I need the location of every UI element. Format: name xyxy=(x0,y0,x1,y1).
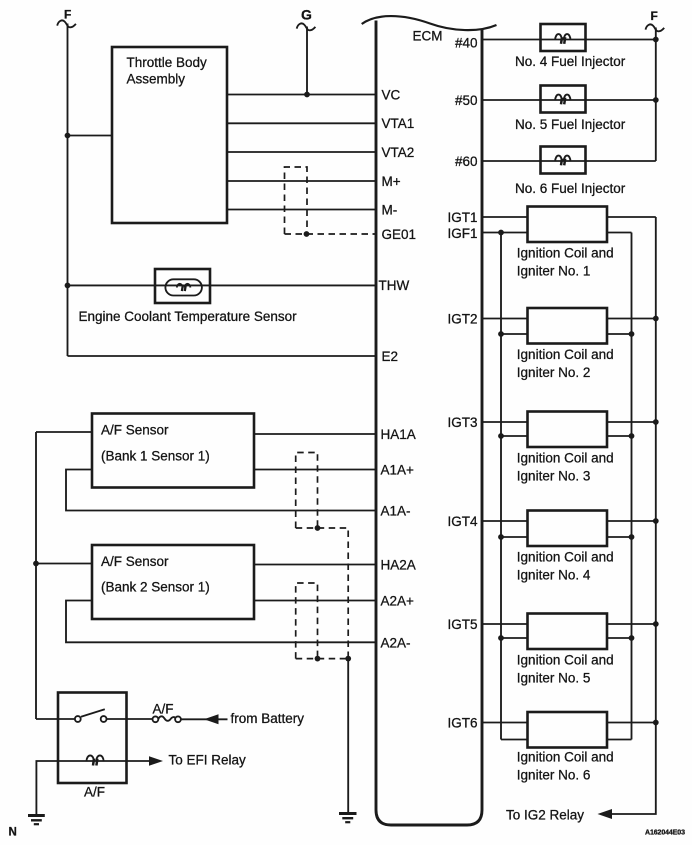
svg-text:Igniter No. 2: Igniter No. 2 xyxy=(517,365,591,380)
ignition coil no4 box xyxy=(528,511,608,547)
node junction drain to ground wire xyxy=(345,656,351,662)
arrow to EFI relay (points right) xyxy=(149,756,163,766)
svg-text:Ignition Coil and: Ignition Coil and xyxy=(517,750,614,765)
svg-text:A1A+: A1A+ xyxy=(381,462,415,477)
svg-text:No. 4 Fuel Injector: No. 4 Fuel Injector xyxy=(515,54,626,69)
node junction inner bus coil3 xyxy=(629,433,635,439)
fuse A/F contact right xyxy=(175,716,181,722)
svg-text:HA2A: HA2A xyxy=(381,557,416,572)
wire G drop to VC xyxy=(306,27,308,95)
wire A2A- (loops from sensor2 left) xyxy=(66,601,376,643)
wire VTA2 xyxy=(227,151,376,153)
wire bus into relay switch xyxy=(36,718,75,720)
wire outer bus (x=655.8) to IG2 relay xyxy=(611,217,656,814)
node junction shield B drain xyxy=(315,525,321,531)
relay switch blade xyxy=(81,709,105,716)
svg-text:#50: #50 xyxy=(455,93,478,108)
svg-text:HA1A: HA1A xyxy=(381,427,416,442)
svg-text:Ignition Coil and: Ignition Coil and xyxy=(517,451,614,466)
node junction inner bus coil5 xyxy=(629,635,635,641)
svg-text:A2A-: A2A- xyxy=(381,635,411,650)
wire VTA1 xyxy=(227,122,376,124)
svg-text:F: F xyxy=(651,9,658,23)
svg-text:THW: THW xyxy=(379,278,410,293)
ECM body outline xyxy=(376,21,482,826)
svg-text:Igniter No. 6: Igniter No. 6 xyxy=(517,768,591,783)
svg-text:M+: M+ xyxy=(382,174,401,189)
svg-text:Throttle Body: Throttle Body xyxy=(127,55,208,70)
wire coil4 right mid xyxy=(607,536,632,538)
svg-text:IGT1: IGT1 xyxy=(447,210,477,225)
node junction outer bus coil2 xyxy=(653,316,659,322)
ignition coil no3 box xyxy=(528,412,608,448)
svg-text:IGT6: IGT6 xyxy=(447,715,477,730)
svg-text:A/F Sensor: A/F Sensor xyxy=(101,423,169,438)
relay coil symbol xyxy=(87,755,104,765)
wire to throttle body left pin xyxy=(68,135,113,137)
svg-text:M-: M- xyxy=(382,202,398,217)
wire coil3 right top xyxy=(607,421,656,423)
wire IGT5 xyxy=(482,623,528,625)
wire IGT3 xyxy=(482,421,528,423)
wire #50 to injector xyxy=(482,99,656,101)
node junction IGF bus coil3 xyxy=(498,433,504,439)
wire coil1 right top xyxy=(607,216,656,218)
A/F sensor bank2 box xyxy=(92,545,254,619)
shield bottom dashed to drain xyxy=(296,658,349,660)
engine coolant temp sensor thermistor pill xyxy=(165,279,202,295)
wire #60 to injector xyxy=(482,160,656,162)
ignition coil no2 box xyxy=(528,308,608,344)
svg-text:A2A+: A2A+ xyxy=(381,593,415,608)
node junction F bus #40 xyxy=(653,37,659,43)
wire coil3 mid from IGF bus xyxy=(501,435,528,437)
svg-text:VC: VC xyxy=(382,87,401,102)
engine coolant temp sensor box xyxy=(155,269,210,303)
svg-text:IGT5: IGT5 xyxy=(447,617,477,632)
wire IGT2 xyxy=(482,318,528,320)
ignition coil no1 box xyxy=(528,207,608,243)
wire IGT1 xyxy=(482,216,528,218)
node junction outer bus coil4 xyxy=(653,518,659,524)
relay switch contact left xyxy=(75,716,81,722)
fuel injector no6 box xyxy=(541,147,586,174)
relay switch contact right xyxy=(101,716,107,722)
wire coil1 right mid xyxy=(607,232,632,234)
wire IGF1 xyxy=(482,232,528,234)
wire M- xyxy=(227,209,376,211)
wire F bus (left, x=67.5 from connector down to E2 corner) xyxy=(67,24,69,357)
ground (relay) xyxy=(28,816,45,825)
node junction bus to sensor2 xyxy=(33,561,39,567)
svg-text:(Bank 2 Sensor 1): (Bank 2 Sensor 1) xyxy=(101,580,210,595)
connector F (top right) squiggle xyxy=(646,24,665,31)
connector F (top left) squiggle xyxy=(57,20,76,27)
svg-text:VTA1: VTA1 xyxy=(382,116,415,131)
wire GE01 dashed xyxy=(285,233,377,235)
wire sensor2 left to bus xyxy=(36,563,92,565)
wire #40 to injector xyxy=(482,39,656,41)
wire IGT6 xyxy=(482,722,528,724)
shield box (M+/M- twisted pair) dashed xyxy=(285,167,308,234)
svg-text:Igniter No. 4: Igniter No. 4 xyxy=(517,568,591,583)
node junction inner bus coil2 xyxy=(629,331,635,337)
wire relay coil down to ground xyxy=(36,761,58,815)
engine coolant temp sensor coil symbol xyxy=(177,284,191,291)
fuel injector no6 coil symbol xyxy=(555,156,570,166)
node junction IGF bus coil5 xyxy=(498,635,504,641)
svg-text:A/F: A/F xyxy=(84,785,105,800)
wire A1A- (loops from sensor1 left) xyxy=(66,470,376,511)
fuel injector no5 coil symbol xyxy=(555,95,570,105)
node junction outer bus coil5 xyxy=(653,621,659,627)
svg-text:A1A-: A1A- xyxy=(381,503,411,518)
wire coil5 mid from IGF bus xyxy=(501,637,528,639)
svg-text:N: N xyxy=(9,827,17,839)
wire IGF bus (x=501) xyxy=(500,233,502,740)
wire coil6 right mid xyxy=(607,739,632,741)
wire coil3 right mid xyxy=(607,435,632,437)
svg-text:E2: E2 xyxy=(382,349,399,364)
svg-text:No. 6 Fuel Injector: No. 6 Fuel Injector xyxy=(515,181,626,196)
wire switch to fuse xyxy=(107,718,153,720)
node junction IGF bus coil2 xyxy=(498,331,504,337)
svg-text:Igniter No. 3: Igniter No. 3 xyxy=(517,469,591,484)
svg-text:Ignition Coil and: Ignition Coil and xyxy=(517,246,614,261)
fuse A/F contact left xyxy=(153,716,159,722)
wire F bus (right, injectors) xyxy=(655,28,657,162)
svg-text:ECM: ECM xyxy=(413,29,443,44)
wire THW xyxy=(68,284,377,286)
node junction shield C drain xyxy=(315,656,321,662)
svg-text:Ignition Coil and: Ignition Coil and xyxy=(517,550,614,565)
node junction IGF bus coil4 xyxy=(498,534,504,540)
node junction F bus #50 xyxy=(653,97,659,103)
wire shield drain to ground xyxy=(347,659,349,813)
ground (shield drain) xyxy=(339,814,357,823)
svg-text:VTA2: VTA2 xyxy=(382,145,415,160)
wire coil2 right mid xyxy=(607,333,632,335)
svg-text:#40: #40 xyxy=(455,35,478,50)
svg-text:Ignition Coil and: Ignition Coil and xyxy=(517,653,614,668)
wire E2 xyxy=(68,355,377,357)
wire coil6 mid from IGF bus corner xyxy=(501,739,528,741)
svg-text:To IG2 Relay: To IG2 Relay xyxy=(506,808,584,823)
wire coil6 right top xyxy=(607,722,656,724)
svg-text:Igniter No. 5: Igniter No. 5 xyxy=(517,671,591,686)
wire fuse to battery arrow xyxy=(181,718,228,720)
svg-text:#60: #60 xyxy=(455,154,478,169)
wire sensor1 left to bus xyxy=(36,431,92,433)
shield box (A1A pair) dashed xyxy=(296,453,318,529)
svg-text:from Battery: from Battery xyxy=(231,711,305,726)
wire A1A+ xyxy=(254,469,376,471)
node junction shield drain to GE01 xyxy=(304,231,310,237)
svg-text:IGT2: IGT2 xyxy=(447,311,477,326)
svg-text:(Bank 1 Sensor 1): (Bank 1 Sensor 1) xyxy=(101,449,210,464)
arrow to IG2 relay (points left) xyxy=(598,809,613,819)
svg-text:IGT3: IGT3 xyxy=(447,415,477,430)
node junction F-bus to throttle body xyxy=(65,133,71,139)
wire VC xyxy=(227,94,376,96)
wire coil2 right top xyxy=(607,318,656,320)
fuel injector no5 box xyxy=(541,86,586,113)
wire IGT4 xyxy=(482,520,528,522)
svg-text:No. 5 Fuel Injector: No. 5 Fuel Injector xyxy=(515,117,626,132)
ignition coil no5 box xyxy=(528,614,608,650)
connector G squiggle xyxy=(297,23,316,30)
fuse A/F wavy element xyxy=(158,716,175,721)
wire left bus (x=36) down to relay xyxy=(35,432,37,719)
fuel injector no4 box xyxy=(541,24,586,51)
svg-text:IGF1: IGF1 xyxy=(447,226,477,241)
svg-text:Ignition Coil and: Ignition Coil and xyxy=(517,347,614,362)
svg-text:Igniter No. 1: Igniter No. 1 xyxy=(517,264,591,279)
wire coil2 mid from IGF bus xyxy=(501,333,528,335)
wire relay coil row left xyxy=(58,760,149,762)
ignition coil no6 box xyxy=(528,712,608,748)
node junction IGF bus top xyxy=(498,230,504,236)
svg-text:A162044E03: A162044E03 xyxy=(645,830,685,837)
fuel injector no4 coil symbol xyxy=(555,34,570,44)
node junction outer bus coil6 xyxy=(653,720,659,726)
arrow from battery (points left) xyxy=(204,714,219,724)
svg-text:To EFI Relay: To EFI Relay xyxy=(169,753,247,768)
svg-text:Engine Coolant Temperature Sen: Engine Coolant Temperature Sensor xyxy=(79,309,298,324)
A/F relay box xyxy=(58,693,127,784)
svg-text:A/F: A/F xyxy=(153,702,174,717)
wire coil4 mid from IGF bus xyxy=(501,536,528,538)
shield box (A2A pair) dashed xyxy=(296,583,318,659)
svg-text:F: F xyxy=(64,8,71,22)
wire coil5 right top xyxy=(607,623,656,625)
wire coil5 right mid xyxy=(607,637,632,639)
svg-text:IGT4: IGT4 xyxy=(447,514,477,529)
node junction F-bus to THW xyxy=(65,283,71,289)
wire coil4 right top xyxy=(607,520,656,522)
wire M+ xyxy=(227,180,376,182)
svg-text:A/F Sensor: A/F Sensor xyxy=(101,554,169,569)
svg-text:GE01: GE01 xyxy=(382,227,417,242)
node junction G on VC wire xyxy=(304,92,310,98)
wire HA1A xyxy=(254,433,376,435)
wire inner bus (x=631.5) xyxy=(631,233,633,740)
svg-text:Assembly: Assembly xyxy=(127,72,186,87)
node junction inner bus coil4 xyxy=(629,534,635,540)
wire HA2A xyxy=(254,564,376,566)
node junction outer bus coil3 xyxy=(653,419,659,425)
svg-text:G: G xyxy=(301,7,312,23)
shield drain dashed to lower shield xyxy=(296,528,349,659)
throttle body assembly box xyxy=(112,47,227,223)
ECM top wave xyxy=(362,16,497,30)
wire A2A+ xyxy=(254,600,376,602)
A/F sensor bank1 box xyxy=(92,414,254,488)
